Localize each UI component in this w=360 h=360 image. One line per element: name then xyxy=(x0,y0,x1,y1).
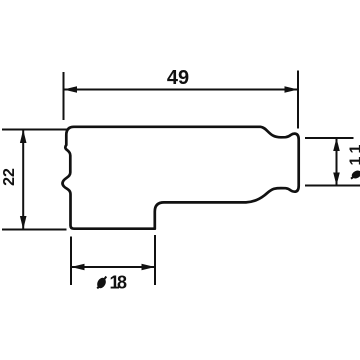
dimension phi11: bottom arrowhead xyxy=(333,173,340,186)
svg-text:49: 49 xyxy=(167,67,189,89)
svg-text:11: 11 xyxy=(348,141,360,166)
svg-text:18: 18 xyxy=(110,273,128,293)
dimension phi18: dimension line xyxy=(71,266,155,268)
dimension 22: dimension line xyxy=(22,130,24,230)
dimension phi18: left extension line xyxy=(70,237,72,286)
dimension 49: right arrowhead xyxy=(285,86,299,93)
dimension phi11: top extension line xyxy=(305,137,354,139)
dimension phi18: right arrowhead xyxy=(142,264,156,271)
dimension 22: bottom extension line xyxy=(2,229,67,231)
dimension 22: top extension line xyxy=(2,129,67,131)
dimension 22: top arrowhead xyxy=(20,130,27,144)
dimension 22: bottom arrowhead xyxy=(20,216,27,230)
dimension phi18: left arrowhead xyxy=(71,264,85,271)
dimension 49: left extension line xyxy=(63,72,65,120)
dimension phi11: dimension line xyxy=(336,138,338,186)
dimension phi18: right extension line xyxy=(154,235,156,285)
dimension phi11: bottom extension line xyxy=(305,185,360,187)
dimension 49: right extension line xyxy=(297,71,299,129)
dimension 49: dimension line xyxy=(64,89,299,91)
dimension phi18: diameter symbol xyxy=(95,276,107,289)
dimension 49: left arrowhead xyxy=(64,86,78,93)
dimension phi11: top arrowhead xyxy=(333,138,340,151)
dimension phi11: diameter symbol (clipped at edge) xyxy=(350,169,360,180)
svg-text:22: 22 xyxy=(1,168,18,186)
part outline (plug cap profile) xyxy=(63,127,299,229)
